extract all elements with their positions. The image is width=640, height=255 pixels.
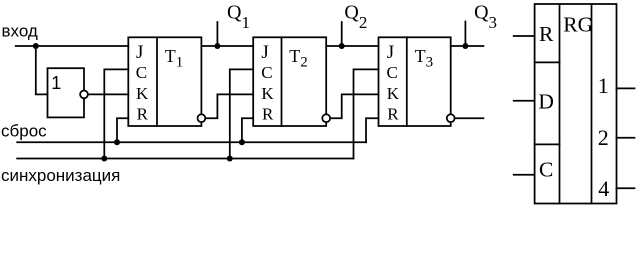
svg-text:J: J [387, 42, 394, 63]
wire: T3 C tap from синхронизация [354, 69, 379, 158]
register RG divider left [559, 4, 561, 204]
wire: вход down to inverter input [36, 46, 48, 94]
svg-text:C: C [387, 63, 398, 82]
wire: T2 inverted out to T3 K [330, 94, 378, 118]
node: junction on синхронизация for T2 C [227, 156, 233, 162]
register RG cell divider R/D [535, 61, 560, 63]
T2 inverted output bubble [322, 114, 330, 122]
wire: RG output 4 stub [617, 187, 635, 189]
svg-text:сброс: сброс [1, 122, 47, 141]
wire: T2 C tap from синхронизация [230, 69, 253, 158]
wire: T1 R tap from сброс [117, 118, 128, 142]
T3 inverted output bubble [447, 114, 455, 122]
wire: inverter output to T1 K [88, 93, 128, 95]
svg-text:J: J [136, 42, 143, 63]
svg-text:синхронизация: синхронизация [1, 166, 120, 185]
wire: Q3 vertical tap [464, 22, 466, 47]
svg-text:K: K [261, 84, 274, 103]
wire: Q1 vertical tap [216, 22, 218, 46]
flip-flop T2 box [253, 37, 326, 126]
svg-text:J: J [261, 42, 268, 63]
svg-text:D: D [538, 90, 554, 114]
wire: Q2 vertical tap [341, 22, 343, 46]
wire: T2 R tap from сброс [242, 118, 253, 142]
wire: Q3 output stub [451, 45, 484, 47]
svg-text:вход: вход [2, 21, 38, 40]
wire: RG output 2 stub [617, 137, 635, 139]
node: вход junction [33, 43, 39, 49]
flip-flop T2 divider [281, 37, 283, 126]
register RG cell divider D/C [535, 143, 560, 145]
svg-text:R: R [539, 22, 554, 46]
node: Q2 junction [339, 43, 345, 49]
svg-text:R: R [387, 104, 399, 123]
node: junction on сброс for T1 R [114, 139, 120, 145]
wire: RG D input stub [514, 100, 535, 102]
flip-flop T3 box [379, 37, 451, 126]
svg-text:K: K [136, 84, 149, 103]
svg-text:1: 1 [51, 73, 61, 93]
register RG divider right [591, 4, 593, 204]
svg-text:R: R [137, 104, 149, 123]
wire: RG R input stub [514, 35, 535, 37]
node: junction on сброс for T2 R [239, 139, 245, 145]
wire: T3 R tap from сброс [366, 118, 379, 142]
wire: сброс line [17, 141, 366, 143]
svg-text:K: K [387, 84, 400, 103]
wire: Q1 output to T2 J [201, 45, 253, 47]
wire: вход input line [16, 45, 129, 47]
node: junction on синхронизация for T1 C [101, 156, 107, 162]
wire: T3 inverted out stub [455, 117, 484, 119]
svg-text:2: 2 [598, 125, 609, 150]
wire: Q2 output to T3 J [326, 45, 378, 47]
T1 inverted output bubble [198, 114, 206, 122]
svg-text:C: C [261, 63, 272, 82]
node: Q3 junction [462, 43, 468, 49]
wire: T1 C tap from синхронизация [104, 69, 128, 158]
flip-flop T1 box [128, 37, 201, 126]
svg-text:4: 4 [598, 176, 609, 201]
register RG outer box [535, 4, 617, 204]
wire: синхронизация line [17, 158, 353, 160]
svg-text:1: 1 [598, 73, 609, 98]
wire: T1 inverted out to T2 K [206, 94, 254, 118]
svg-text:RG: RG [563, 13, 593, 37]
node: Q1 junction [214, 43, 220, 49]
inverter U1 output bubble [80, 91, 88, 99]
inverter U1 box [48, 68, 85, 117]
svg-text:R: R [262, 104, 274, 123]
svg-text:C: C [136, 63, 147, 82]
flip-flop T1 divider [156, 37, 158, 126]
flip-flop T3 divider [406, 37, 408, 126]
wire: RG C input stub [514, 174, 535, 176]
svg-text:C: C [539, 158, 553, 182]
wire: RG output 1 stub [617, 87, 635, 89]
